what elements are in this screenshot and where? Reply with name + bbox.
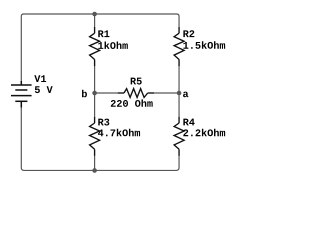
resistor R3 <box>90 117 100 156</box>
R1 value label 1kOhm <box>98 42 128 49</box>
R4 ref label <box>183 119 194 126</box>
R5 ref label <box>131 78 142 85</box>
R3 value label 4.7kOhm <box>98 129 140 136</box>
R2 ref label <box>183 30 194 37</box>
wire: R5 right lead to node a <box>154 92 179 94</box>
R2 value label 1.5kOhm <box>183 41 225 48</box>
node b label <box>82 90 87 97</box>
battery V1 value label 5 V <box>35 86 53 93</box>
R1 ref label <box>98 30 109 37</box>
wire: top rail junction to R1 top lead <box>94 14 96 27</box>
resistor R4 <box>174 117 184 156</box>
wire: R3 bottom lead to bottom rail junction <box>94 156 96 171</box>
R4 value label 2.2kOhm <box>183 129 225 136</box>
wire: node b down to R3 top lead <box>94 93 96 117</box>
junction dot: node a <box>177 91 182 96</box>
wire: R2 bottom lead to node a <box>178 66 180 93</box>
wire: left branch, top rail and right branch upper segment <box>21 14 179 82</box>
battery V1 ref label <box>34 75 46 82</box>
wire: battery negative to bottom rail to R4 bottom lead <box>21 107 179 170</box>
resistor R1 <box>90 27 100 66</box>
battery V1 <box>11 81 32 108</box>
wire: node b to R5 left lead <box>95 92 118 94</box>
junction dot: bottom rail / R3 branch <box>92 168 97 173</box>
junction dot: node b <box>92 91 97 96</box>
R5 value label 220 Ohm <box>111 99 153 106</box>
wire: node a down to R4 top lead <box>178 93 180 117</box>
node a label <box>183 92 188 98</box>
R3 ref label <box>98 119 109 126</box>
resistor R2 <box>174 27 184 66</box>
wire: R1 bottom lead to node b <box>94 66 96 93</box>
resistor R5 <box>118 89 155 98</box>
junction dot: top rail / R1 branch <box>92 12 97 17</box>
